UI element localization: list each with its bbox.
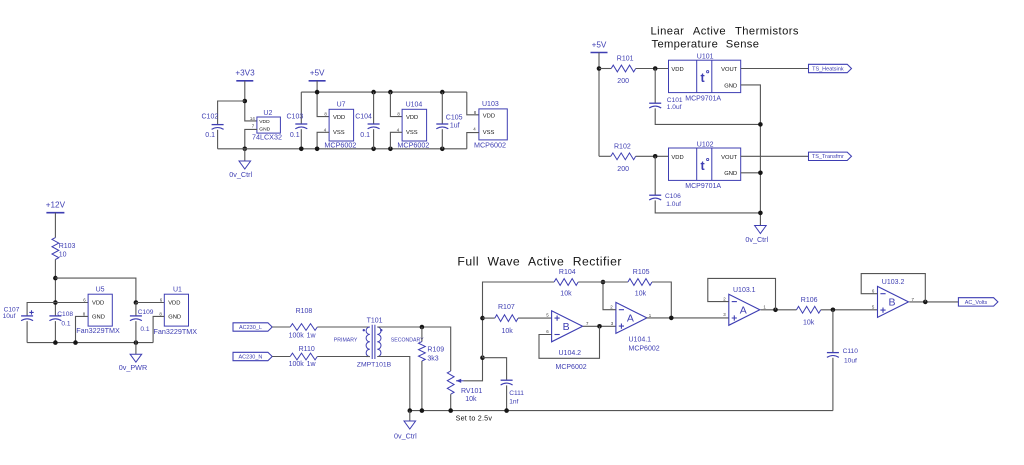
rectifier rail nodes	[408, 408, 509, 413]
svg-text:R102: R102	[614, 143, 631, 150]
node rail/C104 top	[371, 90, 376, 95]
wire R106 to U103.2 +	[821, 309, 878, 311]
svg-text:MCP6002: MCP6002	[324, 140, 356, 149]
ground 0v_Ctrl (power section)	[229, 147, 252, 179]
wire C104 bottom	[373, 129, 375, 149]
wire +5V down to R102	[598, 53, 600, 157]
wire U103.1 output	[761, 309, 797, 311]
wire U103.2 output to label	[909, 301, 958, 303]
wire C103 bottom	[300, 129, 302, 149]
op-amp U104.1 MCP6002	[610, 302, 659, 352]
wire U103.1 feedback loop	[708, 278, 776, 309]
IC U7 MCP6002 power	[324, 101, 357, 149]
left bottom rail	[27, 342, 153, 344]
svg-text:200: 200	[617, 166, 629, 173]
wire R102 to U102 VDD	[636, 155, 669, 157]
svg-text:AC_Volts: AC_Volts	[965, 300, 988, 306]
resistor R102	[611, 143, 636, 173]
wire R101 left lead	[599, 68, 611, 70]
wire +3V3 to U2 VDD pin 14	[245, 81, 257, 121]
power +3V3	[235, 68, 255, 80]
wire AC230_L to R108	[272, 326, 290, 328]
svg-text:C111: C111	[509, 390, 524, 397]
wire U104 VSS pin 4 to rail	[390, 132, 402, 149]
svg-text:1w: 1w	[307, 332, 317, 339]
wire U104.2 feedback loop	[539, 326, 600, 358]
node GND/C106	[758, 211, 763, 216]
wire C105 bottom	[441, 129, 443, 149]
node C109/U1 VDD	[134, 300, 139, 305]
wire AC230_N to R110	[272, 356, 290, 358]
text Set to 2.5v	[456, 414, 493, 423]
svg-text:Linear Active Thermistors: Linear Active Thermistors	[651, 26, 799, 38]
svg-text:VDD: VDD	[259, 119, 270, 125]
capacitor C104	[355, 113, 379, 139]
svg-text:C108: C108	[57, 311, 73, 318]
svg-text:Fan3229TMX: Fan3229TMX	[154, 327, 198, 336]
svg-text:0v_Ctrl: 0v_Ctrl	[229, 170, 252, 179]
svg-text:VDD: VDD	[92, 301, 104, 307]
svg-text:100k: 100k	[289, 332, 305, 339]
svg-text:U104: U104	[406, 101, 423, 108]
wire R108 to primary	[317, 326, 370, 328]
svg-text:A: A	[740, 304, 747, 316]
wire branch to U1 side	[55, 278, 135, 302]
resistor R108	[289, 308, 318, 339]
node +12V branch top	[53, 276, 58, 281]
svg-text:Fan3229TMX: Fan3229TMX	[76, 326, 120, 335]
svg-text:+12V: +12V	[46, 200, 66, 209]
svg-text:R109: R109	[427, 346, 444, 353]
svg-text:0.1: 0.1	[360, 132, 370, 139]
node R101 tee	[597, 66, 602, 71]
svg-text:1nf: 1nf	[509, 399, 518, 406]
wire R107 left lead	[483, 317, 495, 319]
svg-text:C106: C106	[665, 193, 681, 200]
svg-text:GND: GND	[724, 83, 737, 89]
svg-text:MCP9701A: MCP9701A	[685, 183, 721, 190]
svg-text:C104: C104	[355, 113, 372, 120]
svg-text:MCP9701A: MCP9701A	[685, 95, 721, 102]
capacitor C108	[49, 311, 73, 342]
svg-text:10k: 10k	[803, 320, 815, 327]
resistor R101	[611, 55, 635, 85]
wire C101 bottom loop	[655, 108, 760, 124]
resistor R103	[52, 238, 76, 260]
wire U104.1 output	[646, 317, 728, 319]
svg-text:C103: C103	[287, 113, 304, 120]
svg-text:VOUT: VOUT	[721, 67, 738, 73]
left rail nodes	[53, 340, 138, 345]
svg-text:+5V: +5V	[592, 40, 607, 49]
wire secondary bottom to ground rail	[377, 357, 410, 411]
svg-text:R106: R106	[801, 297, 818, 304]
svg-text:10uf: 10uf	[3, 313, 16, 320]
wire +12V to R103	[54, 213, 56, 238]
node C110 tee	[831, 308, 836, 313]
wire U103.2 feedback loop	[861, 274, 925, 302]
hierarchical label TS_Heatsink	[809, 64, 852, 72]
sensor U101 MCP9701A	[669, 54, 741, 103]
wire U101 GND down	[741, 85, 761, 226]
svg-text:10k: 10k	[560, 290, 572, 297]
svg-text:10k: 10k	[502, 328, 514, 335]
wire R104 to node	[578, 281, 628, 283]
sensor U102 MCP9701A	[669, 142, 741, 191]
svg-text:0v_Ctrl: 0v_Ctrl	[394, 431, 417, 440]
svg-text:R107: R107	[498, 304, 515, 311]
svg-text:+3V3: +3V3	[235, 68, 255, 77]
svg-text:VSS: VSS	[333, 130, 345, 136]
IC U103 MCP6002 power	[473, 101, 507, 150]
svg-text:U103.2: U103.2	[882, 279, 905, 286]
op-amp U104.2 MCP6002	[546, 311, 589, 371]
hierarchical label AC230_L	[233, 323, 272, 331]
wire U1 VDD pin 6	[136, 302, 164, 304]
node GND/U102	[758, 171, 763, 176]
svg-text:3k3: 3k3	[427, 356, 438, 363]
hierarchical label AC230_N	[233, 352, 272, 360]
wire R105 to U104.1 output	[652, 282, 671, 318]
wire R109 top lead	[421, 327, 423, 342]
svg-text:R101: R101	[617, 55, 634, 62]
svg-text:0v_Ctrl: 0v_Ctrl	[745, 235, 768, 244]
power +5V (decoupling)	[309, 68, 326, 80]
svg-text:C110: C110	[843, 348, 859, 355]
hierarchical label AC_Volts	[958, 298, 998, 306]
svg-text:+5V: +5V	[310, 68, 325, 77]
svg-text:U102: U102	[697, 142, 714, 149]
resistor R110	[289, 346, 318, 368]
node C106 tee	[653, 154, 658, 159]
svg-text:GND: GND	[724, 171, 737, 177]
IC U2 74LCX32	[250, 110, 282, 141]
wire U103 VSS pin 4 to rail	[467, 133, 479, 149]
node C101 tee	[653, 66, 658, 71]
svg-text:PRIMARY: PRIMARY	[334, 338, 358, 344]
capacitor C106	[649, 193, 681, 208]
potentiometer RV101	[447, 371, 482, 403]
svg-text:100k: 100k	[289, 361, 305, 368]
wire R103 to C108	[54, 260, 56, 316]
svg-text:AC230_N: AC230_N	[239, 354, 263, 360]
svg-text:1w: 1w	[307, 361, 317, 368]
node R107 tee	[480, 316, 485, 321]
svg-text:MCP6002: MCP6002	[397, 140, 429, 149]
capacitor C111	[501, 380, 525, 405]
svg-text:1.0uf: 1.0uf	[666, 201, 681, 208]
svg-text:10k: 10k	[465, 396, 477, 403]
node U103.1 feedback	[773, 308, 778, 313]
svg-text:VDD: VDD	[483, 114, 495, 120]
svg-text:U5: U5	[96, 286, 105, 293]
svg-text:TS_Transfmr: TS_Transfmr	[812, 154, 844, 160]
resistor R107	[495, 304, 518, 335]
wire R107 to U104.2 +	[518, 317, 552, 319]
svg-text:74LCX32: 74LCX32	[252, 133, 282, 142]
wire U2 GND pin 7 to rail	[245, 129, 257, 148]
node U5 VDD net	[53, 300, 58, 305]
wire RV101 bottom lead	[450, 394, 452, 410]
svg-text:U103.1: U103.1	[733, 287, 756, 294]
wire R102 left lead	[599, 155, 611, 157]
svg-text:Full Wave Active Rectifier: Full Wave Active Rectifier	[457, 254, 622, 268]
wire U7 VSS pin 4 to rail	[317, 132, 329, 149]
resistor R106	[797, 297, 821, 327]
wire U101 VOUT to label	[741, 68, 809, 70]
svg-text:VOUT: VOUT	[721, 155, 738, 161]
svg-text:VDD: VDD	[168, 301, 180, 307]
svg-text:AC230_L: AC230_L	[239, 325, 262, 331]
power +12V	[46, 200, 66, 212]
wire U5 GND pin 8	[76, 316, 89, 342]
svg-text:U7: U7	[337, 101, 346, 108]
capacitor C101	[649, 97, 683, 111]
svg-text:MCP6002: MCP6002	[629, 345, 660, 352]
node R104/R105	[601, 280, 606, 285]
wire C105 top lead	[441, 92, 443, 124]
svg-text:RV101: RV101	[461, 388, 482, 395]
svg-text:200: 200	[617, 78, 629, 85]
svg-text:0.1: 0.1	[205, 132, 215, 139]
ground 0v_Ctrl (rectifier)	[394, 411, 417, 441]
svg-text:ZMPT101B: ZMPT101B	[357, 362, 392, 369]
hierarchical label TS_Transfmr	[809, 152, 852, 160]
svg-text:C109: C109	[138, 309, 154, 316]
resistor R104	[554, 269, 578, 297]
svg-text:R110: R110	[299, 346, 315, 353]
wire R110 to primary	[317, 356, 370, 358]
svg-text:0v_PWR: 0v_PWR	[119, 363, 147, 372]
svg-text:U104.2: U104.2	[559, 350, 582, 357]
wire C102 bottom	[217, 130, 219, 149]
capacitor C109	[130, 303, 154, 343]
svg-text:U1: U1	[173, 286, 182, 293]
svg-text:VSS: VSS	[406, 130, 418, 136]
node rail/U104 VDD	[388, 90, 393, 95]
svg-text:Temperature Sense: Temperature Sense	[652, 39, 760, 51]
wire C106 bottom loop	[655, 200, 760, 213]
wire capacitor C106 top	[654, 156, 656, 195]
power +5V (sensors)	[591, 40, 608, 52]
wire U104.2 output to U104.1 +	[583, 325, 616, 327]
svg-text:TS_Heatsink: TS_Heatsink	[812, 66, 844, 72]
node wiper/C111/R107 net	[480, 355, 485, 360]
svg-text:B: B	[888, 297, 895, 309]
svg-text:1.0uf: 1.0uf	[667, 104, 682, 111]
ground 0v_Ctrl (sensors)	[745, 226, 768, 244]
svg-text:VDD: VDD	[671, 155, 683, 161]
resistor R109	[419, 342, 445, 363]
svg-text:U103: U103	[482, 101, 499, 108]
node rail/+5V	[315, 90, 320, 95]
wire capacitor C101 top	[654, 69, 656, 104]
svg-text:14: 14	[250, 116, 255, 121]
svg-text:U2: U2	[263, 110, 272, 117]
svg-text:R105: R105	[633, 269, 650, 276]
svg-text:C105: C105	[446, 115, 463, 122]
svg-text:GND: GND	[168, 315, 181, 321]
wire U103 VDD pin 8	[467, 92, 479, 115]
svg-text:MCP6002: MCP6002	[556, 364, 587, 371]
svg-text:Set to 2.5v: Set to 2.5v	[456, 414, 493, 423]
wire C102 top branch	[218, 101, 245, 125]
wire U104.1 - input up	[603, 282, 616, 310]
top power rail	[301, 91, 467, 93]
title Full Wave Active Rectifier	[457, 254, 622, 268]
svg-text:R103: R103	[59, 243, 76, 250]
wire C104 top lead	[373, 92, 375, 124]
wire U102 VOUT to label	[741, 155, 809, 157]
svg-text:VDD: VDD	[333, 115, 345, 121]
svg-text:B: B	[563, 321, 570, 333]
op-amp U103.1 MCP6002	[723, 287, 766, 325]
IC U5 FAN3229TMX	[76, 286, 120, 335]
node U103.2 feedback	[923, 300, 928, 305]
wire C110 bottom lead	[832, 358, 834, 411]
wire to C107	[27, 303, 55, 316]
wire vertical to R107 tee	[483, 282, 555, 358]
capacitor C102	[202, 113, 224, 139]
svg-text:U101: U101	[697, 54, 714, 61]
title Linear Active Thermistors	[651, 26, 799, 51]
svg-text:0.1: 0.1	[290, 132, 300, 139]
node R109 top	[420, 325, 425, 330]
wire C103 top lead	[300, 92, 302, 124]
wire R109 bottom lead	[421, 361, 423, 411]
IC U1 FAN3229TMX	[154, 286, 198, 336]
node U104.2 feedback	[597, 324, 602, 329]
wire U5 VDD pin 6	[55, 302, 88, 304]
svg-text:0.1: 0.1	[140, 326, 149, 333]
transformer T101 ZMPT101B	[334, 317, 424, 368]
svg-text:0.1: 0.1	[61, 321, 70, 328]
capacitor C107 polarized	[3, 306, 34, 342]
svg-text:R108: R108	[296, 308, 313, 315]
svg-text:U104.1: U104.1	[629, 337, 652, 344]
wire U1 GND pin 8	[153, 316, 164, 342]
svg-text:C102: C102	[202, 113, 219, 120]
capacitor C110	[827, 348, 858, 365]
wire R101 to U101 VDD	[636, 68, 669, 70]
node U104.1 out/R105	[669, 316, 674, 321]
wire secondary top to RV101	[377, 327, 450, 371]
svg-text:A: A	[627, 313, 634, 325]
capacitor C103	[287, 113, 308, 139]
svg-text:10k: 10k	[635, 290, 647, 297]
wire +5V down to U7 VDD pin 8	[317, 81, 329, 117]
svg-text:1uf: 1uf	[450, 123, 460, 130]
svg-text:VDD: VDD	[671, 67, 683, 73]
capacitor C105	[436, 115, 462, 130]
wire U104 VDD pin 8	[390, 92, 402, 117]
rail junction nodes	[299, 147, 445, 152]
wire RV101 wiper	[464, 358, 483, 381]
svg-text:MCP6002: MCP6002	[474, 141, 506, 150]
bottom power rail	[218, 148, 467, 150]
svg-text:R104: R104	[559, 269, 576, 276]
op-amp U103.2 MCP6002	[872, 279, 915, 317]
wire C110 top lead	[832, 310, 834, 353]
wire wiper node to C111	[483, 358, 507, 381]
svg-text:GND: GND	[92, 315, 105, 321]
IC U104 MCP6002 power	[397, 101, 430, 149]
node GND/C101	[758, 122, 763, 127]
ground rail (rectifier)	[410, 410, 833, 412]
node +3V3/C102	[243, 99, 248, 104]
svg-text:VSS: VSS	[483, 130, 495, 136]
node rail/C105 top	[440, 90, 445, 95]
ground 0v_PWR	[119, 343, 147, 373]
wire primary bottom	[366, 356, 370, 358]
svg-text:10uf: 10uf	[844, 358, 857, 365]
wire C111 bottom	[506, 385, 508, 410]
svg-text:VDD: VDD	[406, 115, 418, 121]
svg-text:10: 10	[59, 251, 67, 258]
svg-text:T101: T101	[367, 317, 383, 324]
resistor R105	[628, 269, 652, 297]
wire U102 GND	[741, 172, 761, 174]
